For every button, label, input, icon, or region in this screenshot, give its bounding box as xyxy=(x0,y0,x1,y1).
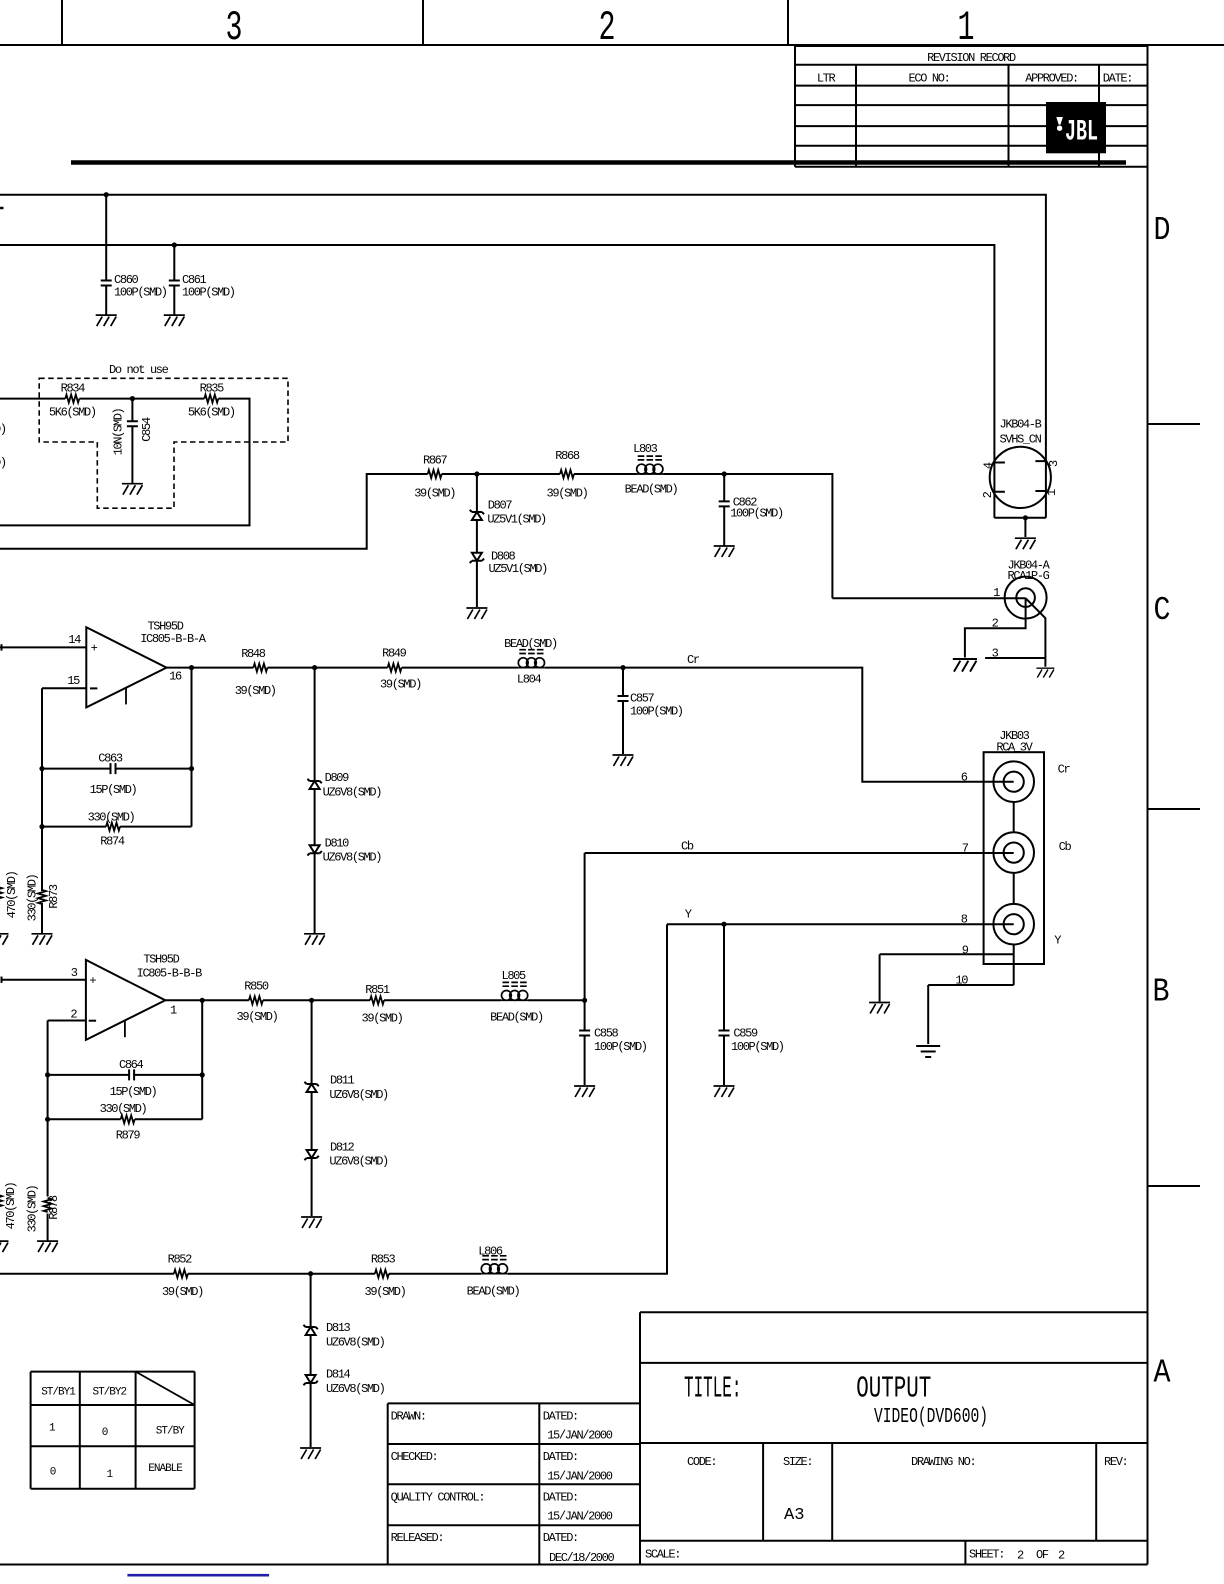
capacitor C863 xyxy=(111,763,116,774)
signature table xyxy=(388,1402,640,1404)
wire D807 to D808 xyxy=(476,520,478,553)
ferrite bead L803 xyxy=(637,456,664,474)
ferrite bead L805 xyxy=(501,982,528,1000)
svg-text:RELEASED:: RELEASED: xyxy=(391,1531,444,1545)
junction JKB04-B ground node xyxy=(1023,515,1028,520)
svg-text:UZ6V8(SMD): UZ6V8(SMD) xyxy=(329,1154,388,1168)
RCA jack JKB03 Y jack xyxy=(993,904,1034,945)
ferrite bead L804 xyxy=(518,650,545,668)
svg-text:CODE:: CODE: xyxy=(687,1455,716,1469)
minus input B xyxy=(89,1020,96,1022)
svg-text:UZ6V8(SMD): UZ6V8(SMD) xyxy=(323,850,382,864)
svg-text:Do not use: Do not use xyxy=(109,363,169,377)
svg-text:DATED:: DATED: xyxy=(543,1409,578,1423)
svg-text:ST/BY: ST/BY xyxy=(156,1425,185,1437)
resistor R849 xyxy=(388,664,402,672)
ground C858 ground xyxy=(574,1086,595,1097)
wire net to R867 xyxy=(0,474,428,549)
wire R879 left lead xyxy=(48,1118,121,1120)
junction D809 tap xyxy=(312,665,317,670)
svg-text:C857: C857 xyxy=(630,691,655,705)
wire C863 left lead xyxy=(42,768,111,770)
svg-text:R849: R849 xyxy=(382,646,407,660)
svg-text:B: B xyxy=(1153,974,1170,1011)
svg-text:UZ6V8(SMD): UZ6V8(SMD) xyxy=(326,1382,385,1396)
wire D811 to D812 xyxy=(311,1092,313,1150)
svg-text:JBL: JBL xyxy=(1065,116,1098,150)
zone tick C|B xyxy=(1148,808,1201,810)
wire R834-R835 link xyxy=(79,398,204,400)
svg-text:ST/BY2: ST/BY2 xyxy=(92,1386,126,1398)
svg-text:16: 16 xyxy=(169,670,182,684)
zone tick 2|1 xyxy=(787,0,789,45)
wire net Y riser xyxy=(508,924,667,1273)
wire R852 to R853 xyxy=(188,1273,375,1275)
resistor R853 xyxy=(375,1270,389,1278)
svg-text:REV:: REV: xyxy=(1104,1455,1127,1469)
op-amp U1 IC805-B-B-A (TSH95D) xyxy=(86,627,166,707)
resistor R873 (vertical) xyxy=(38,890,46,904)
svg-text:330(SMD): 330(SMD) xyxy=(88,810,135,824)
zener diode D814 xyxy=(306,1375,316,1383)
RCA jack JKB03 Cb jack xyxy=(993,832,1034,873)
svg-text:100P(SMD): 100P(SMD) xyxy=(731,1040,784,1054)
svg-text:15/JAN/2000: 15/JAN/2000 xyxy=(547,1429,613,1443)
svg-text:Cr: Cr xyxy=(687,653,700,667)
ground C862 ground xyxy=(714,546,735,557)
junction D811 tap xyxy=(309,998,314,1003)
svg-text:UZ6V8(SMD): UZ6V8(SMD) xyxy=(323,785,382,799)
svg-text:D): D) xyxy=(0,423,6,437)
ground C857 ground xyxy=(613,755,634,766)
svg-text:10N(SMD): 10N(SMD) xyxy=(111,408,125,455)
svg-text:39(SMD): 39(SMD) xyxy=(235,684,276,698)
svg-text:R878: R878 xyxy=(47,1195,61,1220)
partial resistor at page edge B xyxy=(0,1195,2,1209)
wire D810 to ground xyxy=(314,853,316,934)
ground D811/D812 ground xyxy=(301,1217,322,1228)
wire net Cr to JKB03 pin6 xyxy=(545,668,1014,782)
capacitor C860 xyxy=(101,281,112,286)
wire R851 to L805 xyxy=(384,999,501,1001)
svg-text:10: 10 xyxy=(955,974,968,988)
svg-text:APPROVED:: APPROVED: xyxy=(1025,72,1078,86)
wire R868 to L803 xyxy=(574,473,637,475)
svg-text:D814: D814 xyxy=(326,1368,351,1382)
svg-text:C858: C858 xyxy=(594,1026,619,1040)
wire D808 to ground xyxy=(476,561,478,607)
ground pin9 ground xyxy=(869,1003,890,1014)
wire pin9 ground lead xyxy=(879,954,881,1001)
svg-text:VIDEO(DVD600): VIDEO(DVD600) xyxy=(874,1406,988,1429)
wire JKB04-A shell wire xyxy=(1026,598,1046,667)
svg-text:5K6(SMD): 5K6(SMD) xyxy=(49,406,96,420)
svg-text:LTR: LTR xyxy=(817,72,836,86)
wire feedback column right xyxy=(191,668,193,827)
svg-text:39(SMD): 39(SMD) xyxy=(380,677,421,691)
power pin stub B xyxy=(124,1021,126,1038)
svg-text:DATED:: DATED: xyxy=(543,1531,578,1545)
wire C860 top lead xyxy=(105,195,107,281)
svg-text:39(SMD): 39(SMD) xyxy=(237,1010,278,1024)
svg-text:470(SMD): 470(SMD) xyxy=(4,1182,18,1229)
zener diode D808 xyxy=(472,553,482,561)
wire pin1 output wire xyxy=(165,999,249,1001)
svg-text:UZ6V8(SMD): UZ6V8(SMD) xyxy=(329,1088,388,1102)
wire R834 left lead xyxy=(0,398,65,400)
do-not-use dashed outline xyxy=(39,378,288,508)
svg-text:100P(SMD): 100P(SMD) xyxy=(114,285,167,299)
resistor R850 xyxy=(249,996,263,1004)
wire R849 to L804 xyxy=(402,667,518,669)
svg-text:C859: C859 xyxy=(733,1026,758,1040)
svg-text:1: 1 xyxy=(958,4,975,52)
svg-text:R848: R848 xyxy=(241,647,266,661)
wire R850 to R851 xyxy=(263,999,370,1001)
wire R835 return loop xyxy=(0,399,250,526)
wire pin2 wire xyxy=(48,1020,86,1022)
svg-text:L805: L805 xyxy=(501,969,526,983)
svg-text:39(SMD): 39(SMD) xyxy=(547,487,588,501)
junction C864 right node xyxy=(200,1072,205,1077)
svg-text:D): D) xyxy=(0,456,6,470)
svg-text:UZ5V1(SMD): UZ5V1(SMD) xyxy=(489,562,548,576)
zone tick B|A xyxy=(1148,1185,1201,1187)
wire to D807 xyxy=(476,474,478,512)
ground pin10 earth ground (earth style) xyxy=(916,1046,940,1057)
wire D813 to D814 xyxy=(310,1335,312,1375)
svg-text:DEC/18/2000: DEC/18/2000 xyxy=(549,1551,615,1565)
wire D814 to ground xyxy=(310,1383,312,1447)
svg-text:IC805-B-B-B: IC805-B-B-B xyxy=(137,966,203,980)
svg-text:330(SMD): 330(SMD) xyxy=(25,1185,39,1232)
svg-text:CHECKED:: CHECKED: xyxy=(391,1450,438,1464)
wire net Cb wire xyxy=(585,852,1014,854)
junction op-amp B output node xyxy=(200,998,205,1003)
wire inverting node column upper B xyxy=(47,1021,49,1197)
ground JKB04-A pin2 ground xyxy=(953,659,977,672)
wire C854 top lead xyxy=(131,399,133,422)
svg-text:JKB04-B: JKB04-B xyxy=(1000,418,1042,432)
wire C858 top lead xyxy=(584,1000,586,1030)
svg-text:R835: R835 xyxy=(200,382,225,396)
ground D813/D814 ground xyxy=(300,1448,321,1459)
svg-text:R873: R873 xyxy=(47,884,61,909)
wire Cb riser xyxy=(584,853,586,1000)
sheet right border xyxy=(1147,45,1149,1565)
wire net to R852 xyxy=(0,1273,174,1275)
svg-text:SIZE:: SIZE: xyxy=(783,1455,812,1469)
ground edge ground (partial) xyxy=(0,934,9,945)
svg-text:0: 0 xyxy=(50,1467,56,1479)
svg-text:SCALE:: SCALE: xyxy=(645,1548,680,1562)
wire D812 to ground xyxy=(311,1158,313,1216)
wire R879 right lead xyxy=(135,1118,203,1120)
svg-text:C864: C864 xyxy=(119,1058,144,1072)
svg-text:TSH95D: TSH95D xyxy=(143,953,179,967)
svg-text:15: 15 xyxy=(67,674,80,688)
wire R878 to ground xyxy=(47,1214,49,1242)
resistor R874 xyxy=(106,823,120,831)
svg-text:R867: R867 xyxy=(423,453,448,467)
svg-text:15P(SMD): 15P(SMD) xyxy=(110,1085,157,1099)
svg-text:DATED:: DATED: xyxy=(543,1491,578,1505)
svg-text:UZ6V8(SMD): UZ6V8(SMD) xyxy=(326,1335,385,1349)
svg-text:15P(SMD): 15P(SMD) xyxy=(90,783,137,797)
wire C863 right lead xyxy=(116,768,192,770)
svg-text:ST/BY1: ST/BY1 xyxy=(41,1386,76,1398)
junction C864 left node xyxy=(45,1072,50,1077)
resistor R851 xyxy=(370,996,384,1004)
ST/BY table diagonal xyxy=(136,1372,195,1405)
svg-text:ENABLE: ENABLE xyxy=(148,1463,183,1475)
JKB04-B pin stubs xyxy=(994,461,1046,492)
revision record table xyxy=(795,45,1148,47)
junction op-amp A output node xyxy=(189,665,194,670)
ST/BY truth table xyxy=(31,1371,195,1373)
ground C859 ground xyxy=(714,1086,735,1097)
junction D813 tap xyxy=(308,1271,313,1276)
wire C858 bottom lead xyxy=(584,1036,586,1086)
wire pin16 output wire xyxy=(167,667,254,669)
svg-text:D: D xyxy=(1154,212,1171,249)
svg-text:L804: L804 xyxy=(517,672,542,686)
zener diode D811 xyxy=(307,1084,317,1092)
svg-text:A3: A3 xyxy=(784,1506,805,1525)
ground R873 ground xyxy=(32,934,53,945)
svg-text:R851: R851 xyxy=(365,983,390,997)
wire R874 right lead xyxy=(120,826,192,828)
resistor R848 xyxy=(253,664,267,672)
wire D809 to D810 xyxy=(314,789,316,845)
wire C857 bottom lead xyxy=(622,701,624,754)
svg-text:SVHS_CN: SVHS_CN xyxy=(1000,433,1042,447)
wire pin14 input wire xyxy=(0,646,86,648)
ground C861 ground xyxy=(164,315,185,326)
wire R874 left lead xyxy=(42,826,106,828)
zener diode D813 xyxy=(306,1327,316,1335)
ground JKB04-B ground xyxy=(1015,538,1036,549)
wire C857 top lead xyxy=(622,668,624,696)
svg-text:DATED:: DATED: xyxy=(543,1450,578,1464)
svg-text:OUTPUT: OUTPUT xyxy=(856,1372,931,1407)
svg-text:REVISION RECORD: REVISION RECORD xyxy=(927,51,1016,65)
svg-text:SHEET:: SHEET: xyxy=(969,1548,1004,1562)
svg-text:A: A xyxy=(1154,1355,1171,1392)
wire C862 bottom lead xyxy=(723,506,725,545)
minus input A xyxy=(90,687,97,689)
wire inverting node column upper xyxy=(41,688,43,891)
wire jack Y sleeve to pin10 xyxy=(1013,945,1015,986)
capacitor C854 xyxy=(127,421,138,426)
zener diode D810 xyxy=(310,845,320,853)
zone tick 3| xyxy=(61,0,63,45)
svg-text:TITLE:: TITLE: xyxy=(684,1372,741,1407)
stray cut mark at left edge xyxy=(0,207,4,210)
resistor R878 (vertical) xyxy=(44,1198,52,1212)
svg-text:15/JAN/2000: 15/JAN/2000 xyxy=(547,1510,613,1524)
wire feedback column right B xyxy=(201,1000,203,1119)
junction Cb node xyxy=(582,998,587,1003)
resistor R852 xyxy=(174,1270,188,1278)
svg-text:OF: OF xyxy=(1036,1548,1049,1562)
junction D807 tap xyxy=(474,471,479,476)
resistor R834 xyxy=(65,395,79,403)
svg-text:R850: R850 xyxy=(244,980,269,994)
svg-text:R874: R874 xyxy=(100,834,125,848)
svg-text:100P(SMD): 100P(SMD) xyxy=(594,1040,647,1054)
svg-text:D809: D809 xyxy=(325,771,350,785)
cut-wire tick pin3 xyxy=(1,977,3,983)
svg-text:QUALITY CONTROL:: QUALITY CONTROL: xyxy=(391,1491,485,1505)
wire pin9 wire xyxy=(880,953,1014,955)
junction C857 tap xyxy=(620,665,625,670)
junction C863 left node xyxy=(39,766,44,771)
wire R873 to ground xyxy=(41,903,43,934)
junction C860 tap xyxy=(104,192,109,197)
capacitor C862 xyxy=(719,501,730,506)
title block xyxy=(639,1312,641,1564)
junction C859 tap xyxy=(721,922,726,927)
wire net Y-out to JKB04-B pin3 side xyxy=(0,195,1046,518)
wire C860 bottom lead xyxy=(105,286,107,316)
svg-text:39(SMD): 39(SMD) xyxy=(162,1285,203,1299)
partial resistor at page edge xyxy=(0,887,2,901)
resistor R835 xyxy=(204,395,218,403)
svg-text:R852: R852 xyxy=(168,1253,193,1267)
wire JKB04-B bottom xyxy=(994,517,1046,519)
junction C854 tap xyxy=(130,396,135,401)
svg-text:BEAD(SMD): BEAD(SMD) xyxy=(625,482,678,496)
svg-text:330(SMD): 330(SMD) xyxy=(25,874,39,921)
wire pin3 input wire xyxy=(1,979,86,981)
wire R867 to R868 xyxy=(442,473,560,475)
ground D807/D808 ground xyxy=(466,608,487,619)
capacitor C864 xyxy=(129,1069,134,1080)
junction C863 right node xyxy=(189,766,194,771)
svg-text:DRAWING NO:: DRAWING NO: xyxy=(911,1455,975,1469)
wire net C-out to JKB04-B pin4 side xyxy=(0,245,994,518)
wire pin15 wire xyxy=(42,687,86,689)
svg-text:R853: R853 xyxy=(371,1253,396,1267)
svg-text:IC805-B-B-A: IC805-B-B-A xyxy=(140,632,207,646)
svg-text:L806: L806 xyxy=(478,1244,503,1258)
wire to D809 xyxy=(314,668,316,781)
svg-text:DRAWN:: DRAWN: xyxy=(391,1409,426,1423)
sheet top border xyxy=(0,44,1224,46)
wire C864 left lead xyxy=(48,1074,130,1076)
svg-text:100P(SMD): 100P(SMD) xyxy=(182,285,235,299)
wire pin10 wire xyxy=(928,984,1014,986)
wire C859 bottom lead xyxy=(723,1036,725,1086)
svg-text:Cb: Cb xyxy=(681,840,694,854)
RCA jack JKB03 Cr jack xyxy=(993,761,1034,802)
svg-text:UZ5V1(SMD): UZ5V1(SMD) xyxy=(487,513,546,527)
blue underline mark xyxy=(127,1574,269,1577)
svg-text:14: 14 xyxy=(68,633,81,647)
wire jack link Cb-Y xyxy=(1013,873,1015,904)
wire net Y wire xyxy=(667,923,1014,925)
svg-text:0: 0 xyxy=(102,1427,108,1439)
svg-text:Cb: Cb xyxy=(1059,840,1072,854)
svg-text:R834: R834 xyxy=(61,382,86,396)
wire C862 top lead xyxy=(723,474,725,501)
resistor R879 xyxy=(121,1115,135,1123)
svg-text:BEAD(SMD): BEAD(SMD) xyxy=(490,1011,543,1025)
wire C861 top lead xyxy=(173,245,175,281)
zone tick 3|2 xyxy=(422,0,424,45)
junction R874 left node xyxy=(39,824,44,829)
svg-text:D810: D810 xyxy=(325,836,350,850)
capacitor C858 xyxy=(579,1031,590,1036)
zone tick D|C xyxy=(1148,423,1201,425)
ground edge ground B (partial) xyxy=(0,1241,9,1252)
svg-text:L803: L803 xyxy=(633,442,658,456)
ground C854 ground xyxy=(122,484,143,495)
svg-text:100P(SMD): 100P(SMD) xyxy=(730,506,783,520)
op-amp U2 IC805-B-B-B (TSH95D) xyxy=(86,960,165,1040)
wire C859 top lead xyxy=(723,924,725,1030)
junction C861 tap xyxy=(172,242,177,247)
svg-text:BEAD(SMD): BEAD(SMD) xyxy=(504,637,557,651)
svg-text:3: 3 xyxy=(226,4,243,52)
svg-text:2: 2 xyxy=(599,4,616,52)
svg-text:D812: D812 xyxy=(330,1140,355,1154)
svg-text:470(SMD): 470(SMD) xyxy=(5,871,19,918)
JBL logo xyxy=(1046,102,1106,153)
svg-text:BEAD(SMD): BEAD(SMD) xyxy=(467,1285,520,1299)
capacitor C857 xyxy=(618,696,629,701)
power pin stub A xyxy=(125,688,127,705)
svg-text:D807: D807 xyxy=(488,499,513,513)
wire JKB04-B ground lead xyxy=(1024,518,1026,537)
wire to D813 xyxy=(310,1274,312,1327)
wire R853 to L806 xyxy=(389,1273,481,1275)
ground R878 ground xyxy=(37,1241,58,1252)
svg-text:15/JAN/2000: 15/JAN/2000 xyxy=(547,1469,613,1483)
junction C862 tap xyxy=(722,471,727,476)
wire C864 right lead xyxy=(134,1074,202,1076)
svg-text:39(SMD): 39(SMD) xyxy=(414,487,455,501)
ground D809/D810 ground xyxy=(304,934,325,945)
svg-text:C854: C854 xyxy=(140,417,154,442)
resistor R867 xyxy=(428,470,442,478)
zener diode D809 xyxy=(310,781,320,789)
wire jack link Cr-Cb xyxy=(1013,802,1015,832)
svg-text:D811: D811 xyxy=(330,1073,355,1087)
capacitor C861 xyxy=(169,281,180,286)
cut-wire tick pin14 xyxy=(1,644,3,650)
zener diode D812 xyxy=(307,1150,317,1158)
svg-text:DATE:: DATE: xyxy=(1103,72,1132,86)
ground C860 ground xyxy=(96,315,117,326)
wire JKB04-A pin1 wire xyxy=(832,597,1025,599)
svg-text:39(SMD): 39(SMD) xyxy=(362,1011,403,1025)
svg-text:R868: R868 xyxy=(555,449,580,463)
capacitor C859 xyxy=(719,1031,730,1036)
svg-text:C: C xyxy=(1154,592,1171,629)
wire to D811 xyxy=(311,1000,313,1084)
zener diode D807 xyxy=(472,512,482,520)
heavy separator line xyxy=(71,160,1126,165)
svg-text:C863: C863 xyxy=(98,752,123,766)
wire JKB04-A pin2 wire xyxy=(965,598,1026,657)
resistor R868 xyxy=(560,470,574,478)
wire pin10 ground lead xyxy=(927,985,929,1044)
svg-text:39(SMD): 39(SMD) xyxy=(365,1285,406,1299)
ferrite bead L806 xyxy=(481,1256,508,1274)
wire L805 to Cb node xyxy=(528,999,585,1001)
